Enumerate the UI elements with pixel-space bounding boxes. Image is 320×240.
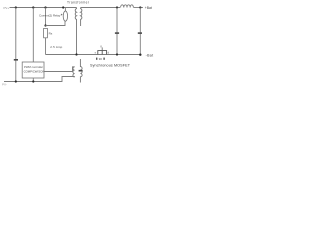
transformer T1 primary winding xyxy=(75,8,76,55)
wire x33 down to PWM box xyxy=(32,8,34,63)
wire resistor junction to relay contact bottom xyxy=(46,21,66,25)
junction dot node D (resistor top) xyxy=(44,24,46,26)
junction dot node I (x117 on mid rail) xyxy=(116,53,118,55)
svg-text:Transformer: Transformer xyxy=(67,1,90,5)
PWM controller box U1 xyxy=(22,62,44,78)
junction dot node G (x140 top) xyxy=(139,6,141,8)
relay contact K1 top lead xyxy=(64,8,66,12)
leader arrow to relay contact xyxy=(61,14,62,15)
junction dot node B (x33 top) xyxy=(32,6,34,8)
svg-text:Synchronous MOSFET: Synchronous MOSFET xyxy=(90,64,131,68)
capacitor C1 plates xyxy=(14,59,18,61)
inductor L1 xyxy=(121,5,134,8)
junction dot node F (x117 top) xyxy=(116,6,118,8)
junction dot node J (mid rail end at -Bat) xyxy=(139,54,141,56)
junction dot node C (x45 top) xyxy=(44,6,46,8)
transformer T1 secondary winding xyxy=(81,8,82,27)
transistor Q1 body xyxy=(98,51,107,55)
wire resistor bottom to mid rail xyxy=(45,38,47,55)
resistor R1 body xyxy=(44,28,48,37)
wire mid rail xyxy=(46,54,142,56)
capacitor C3 plates xyxy=(138,32,142,34)
wire x45 down to resistor junction xyxy=(45,8,47,26)
relay contact K1 body xyxy=(63,11,67,21)
capacitor C2 lead (x117 vertical) xyxy=(116,8,118,55)
wire top rail right (secondary to inductor) xyxy=(81,7,120,9)
wire PWM ground stub xyxy=(32,78,34,82)
junction dot node E (x63 top) xyxy=(62,6,64,8)
junction dot node L (x33 bottom) xyxy=(32,80,34,82)
svg-text:Current(2) Relay: Current(2) Relay xyxy=(39,13,61,17)
wire inductor to +Bat xyxy=(134,7,143,9)
capacitor C4 plates (on gate transformer secondary) xyxy=(79,70,83,72)
capacitor C2 plates xyxy=(115,32,119,34)
svg-text:PV+: PV+ xyxy=(4,6,10,10)
wire bottom rail xyxy=(4,77,75,82)
svg-text:90: 90 xyxy=(99,57,103,61)
gate transformer T2 secondary winding xyxy=(80,59,82,83)
gate transformer T2 primary winding xyxy=(73,67,75,77)
svg-text:PV-: PV- xyxy=(2,83,7,87)
junction dot node H (primary bottom on mid rail) xyxy=(75,53,77,55)
svg-text:-Bat: -Bat xyxy=(146,54,154,58)
wire top rail left (PV+ to transformer primary) xyxy=(10,7,77,9)
junction dot node K (x16 bottom) xyxy=(15,80,17,82)
svg-text:+Bat: +Bat xyxy=(145,6,152,10)
svg-text:Rs: Rs xyxy=(49,32,53,36)
junction dot node A (x16 top) xyxy=(15,6,17,8)
capacitor C1 lead (input cap vertical) xyxy=(15,8,17,82)
capacitor C3 lead (x140 vertical) xyxy=(139,8,141,55)
svg-text:COMP/CW/SCK: COMP/CW/SCK xyxy=(24,69,44,73)
svg-text:2.5 Amp: 2.5 Amp xyxy=(50,45,62,49)
wire PWM output to gate transformer xyxy=(44,67,75,72)
transistor Q1 gate lead xyxy=(101,47,103,50)
